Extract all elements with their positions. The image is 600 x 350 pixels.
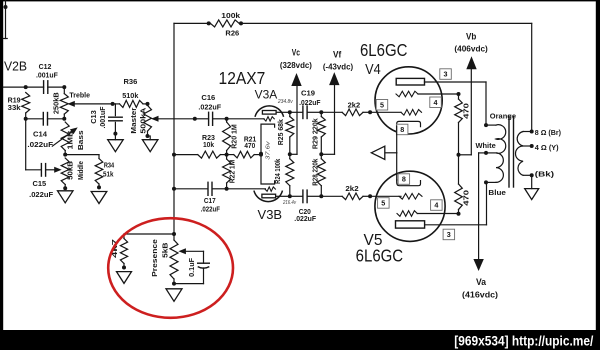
- svg-text:R34: R34: [104, 161, 115, 170]
- svg-text:1MB: 1MB: [65, 130, 74, 150]
- resistor 470 (V5 screen): [455, 155, 471, 214]
- svg-text:Vc: Vc: [292, 48, 300, 58]
- svg-text:.022uF: .022uF: [198, 102, 221, 111]
- svg-text:Middle: Middle: [76, 161, 85, 180]
- potentiometer Bass 1MB: [52, 122, 85, 157]
- svg-text:R22 1M: R22 1M: [227, 160, 236, 184]
- ground below Middle pot: [58, 191, 74, 203]
- svg-text:.001uF: .001uF: [36, 70, 58, 79]
- resistor R26: [211, 11, 242, 37]
- potentiometer Treble 250kB: [52, 85, 113, 121]
- svg-text:R24 100k: R24 100k: [273, 158, 282, 184]
- pin 5 box (V5): [378, 198, 390, 209]
- capacitor C14: [26, 113, 65, 149]
- svg-text:Blue: Blue: [488, 188, 506, 197]
- node Va (416vdc): [462, 259, 498, 300]
- ground below C13: [108, 136, 124, 152]
- svg-text:50kB: 50kB: [65, 160, 74, 179]
- wire V4 screen: [418, 92, 461, 96]
- wire V4 cathode: [396, 126, 398, 153]
- ground below 4k7: [117, 272, 132, 284]
- svg-text:470: 470: [461, 190, 470, 206]
- svg-text:4: 4: [434, 201, 438, 210]
- wire White tap to Va line: [479, 153, 486, 259]
- svg-text:Orange: Orange: [490, 111, 516, 120]
- resistor 470 (V4 screen): [455, 94, 471, 157]
- svg-text:Vf: Vf: [333, 49, 341, 59]
- svg-text:.022uF: .022uF: [201, 205, 221, 214]
- resistor R19: [8, 93, 30, 119]
- svg-text:216.4v: 216.4v: [282, 200, 297, 206]
- svg-text:470: 470: [244, 141, 255, 150]
- capacitor C12: [26, 62, 65, 93]
- svg-text:2k2: 2k2: [348, 101, 361, 110]
- svg-text:470: 470: [461, 103, 470, 119]
- resistor R25: [276, 110, 294, 154]
- svg-text:37.6v: 37.6v: [265, 140, 271, 160]
- node Vf (-43vdc): [321, 49, 353, 154]
- pin 4 box (V5): [431, 200, 443, 211]
- wire V3A/V3B cathode junction: [259, 140, 271, 160]
- wire V5 screen: [417, 212, 460, 216]
- svg-text:33k: 33k: [8, 103, 22, 112]
- pin 5 box (V4): [376, 100, 388, 111]
- svg-text:V4: V4: [365, 62, 381, 78]
- potentiometer Middle 50kB: [54, 158, 85, 190]
- pentode V4: [365, 62, 442, 134]
- svg-text:3: 3: [447, 230, 451, 239]
- svg-text:(Bk): (Bk): [535, 170, 555, 179]
- resistor 4k7: [110, 234, 174, 270]
- triode V3A: [227, 87, 290, 153]
- svg-text:V3B: V3B: [258, 207, 283, 222]
- label 6L6GC (V4): [360, 40, 408, 60]
- wire V5 plate to transformer: [425, 182, 487, 224]
- resistor R20: [223, 119, 239, 157]
- svg-text:R29 220k: R29 220k: [311, 117, 320, 149]
- svg-text:R20 1M: R20 1M: [229, 124, 238, 149]
- ground below Presence pot: [166, 289, 182, 302]
- svg-text:[969x534] http://upic.me/: [969x534] http://upic.me/: [454, 332, 593, 348]
- svg-text:3: 3: [444, 70, 448, 79]
- capacitor C17: [172, 182, 227, 213]
- svg-text:2k2: 2k2: [345, 184, 358, 193]
- svg-text:R28 220k: R28 220k: [311, 158, 320, 186]
- resistor R23: [172, 133, 227, 158]
- svg-text:.022uF: .022uF: [29, 190, 53, 199]
- svg-text:8 Ω (Br): 8 Ω (Br): [535, 128, 562, 137]
- cathode return arrow (to ground elsewhere): [371, 146, 396, 159]
- svg-text:.001uF: .001uF: [98, 106, 107, 128]
- capacitor C19: [290, 89, 324, 119]
- svg-text:12AX7: 12AX7: [219, 68, 266, 88]
- resistor R29: [311, 112, 326, 156]
- label V3B plate voltage 216.4v: [282, 200, 297, 206]
- svg-text:6L6GC: 6L6GC: [360, 40, 408, 60]
- transformer core: [509, 117, 514, 188]
- wire (cut-off fragment, top-left): [3, 0, 7, 39]
- resistor R28: [311, 154, 326, 198]
- pin 3 box (V4): [440, 69, 452, 80]
- svg-text:100k: 100k: [221, 11, 241, 20]
- svg-text:.022uF: .022uF: [299, 98, 321, 107]
- pin 4 box (V4): [430, 97, 442, 108]
- svg-text:R36: R36: [124, 77, 138, 86]
- svg-text:234.8v: 234.8v: [277, 99, 294, 105]
- potentiometer Presence 5kB: [150, 232, 203, 286]
- svg-text:C16: C16: [201, 93, 215, 102]
- svg-text:C19: C19: [301, 89, 315, 98]
- svg-text:C15: C15: [32, 179, 46, 188]
- label 12AX7: [219, 68, 266, 88]
- svg-text:500kA: 500kA: [138, 107, 147, 134]
- svg-text:Vb: Vb: [466, 31, 477, 41]
- wire R19 to C15 row: [24, 117, 28, 170]
- resistor R21: [227, 134, 263, 158]
- resistor R24: [273, 152, 294, 198]
- svg-text:Master: Master: [129, 108, 138, 134]
- svg-text:8: 8: [400, 125, 404, 134]
- svg-text:(406vdc): (406vdc): [454, 44, 488, 54]
- svg-text:V3A: V3A: [255, 87, 278, 101]
- label 6L6GC (V5): [356, 245, 404, 265]
- pin 8 box (V5): [398, 174, 410, 185]
- transformer secondary: [516, 128, 562, 178]
- svg-text:Va: Va: [476, 277, 486, 287]
- svg-text:5: 5: [380, 100, 384, 109]
- svg-text:Presence: Presence: [150, 239, 159, 277]
- resistor 2k2 (V5 grid stopper): [321, 184, 401, 199]
- ground below Master pot: [142, 136, 158, 152]
- capacitor C13: [89, 102, 122, 136]
- wire NFB top with corner: [174, 21, 532, 131]
- wire V4 plate to transformer: [425, 82, 487, 125]
- capacitor 0.1uF (presence): [174, 251, 209, 283]
- transformer primary: [475, 111, 516, 197]
- svg-text:White: White: [475, 141, 495, 150]
- pin 8 box (V4): [396, 124, 408, 135]
- resistor R34: [65, 155, 115, 190]
- resistor R36: [113, 77, 150, 107]
- potentiometer Master 500kA: [129, 104, 195, 138]
- svg-text:6L6GC: 6L6GC: [356, 245, 404, 265]
- svg-text:Bass: Bass: [76, 130, 85, 150]
- svg-text:C13: C13: [89, 110, 98, 124]
- wire NFB vertical (left): [173, 23, 175, 234]
- pin 3 box (V5): [443, 229, 455, 240]
- svg-text:R25 68k: R25 68k: [276, 118, 285, 145]
- node Vc (328vdc): [280, 48, 312, 155]
- svg-text:(328vdc): (328vdc): [280, 60, 312, 70]
- svg-text:4: 4: [434, 98, 438, 107]
- svg-text:R26: R26: [225, 28, 239, 37]
- node Vb (406vdc): [454, 31, 488, 155]
- svg-text:51k: 51k: [103, 169, 114, 178]
- svg-text:.022uF: .022uF: [27, 140, 53, 149]
- svg-text:(-43vdc): (-43vdc): [323, 62, 353, 72]
- node V2B (input from V2B): [3, 59, 28, 89]
- capacitor C20: [290, 190, 322, 223]
- svg-text:10k: 10k: [203, 140, 215, 149]
- pentode V5: [364, 171, 446, 249]
- svg-text:Treble: Treble: [69, 90, 90, 99]
- capacitor C15: [26, 164, 55, 199]
- ground below secondary (Bk): [525, 175, 539, 199]
- highlight ellipse (red): [108, 218, 233, 318]
- resistor R22: [223, 155, 237, 191]
- svg-text:5: 5: [381, 199, 385, 208]
- label V3A plate voltage 234.8v: [277, 99, 294, 105]
- svg-text:5kB: 5kB: [160, 242, 169, 258]
- svg-text:(416vdc): (416vdc): [462, 290, 498, 300]
- svg-text:250kB: 250kB: [52, 92, 61, 114]
- capacitor C16: [193, 93, 229, 126]
- svg-text:8: 8: [402, 175, 406, 184]
- svg-text:C14: C14: [33, 130, 48, 139]
- svg-text:0.1uF: 0.1uF: [187, 258, 196, 277]
- svg-text:510k: 510k: [122, 91, 139, 100]
- resistor 2k2 (V4 grid stopper): [321, 101, 401, 116]
- svg-text:.022uF: .022uF: [294, 214, 316, 223]
- triode V3B: [227, 154, 290, 222]
- ground below R34: [91, 192, 107, 204]
- wire V5 cathode: [396, 153, 398, 180]
- svg-text:4 Ω (Y): 4 Ω (Y): [535, 143, 559, 152]
- svg-text:V2B: V2B: [4, 59, 27, 73]
